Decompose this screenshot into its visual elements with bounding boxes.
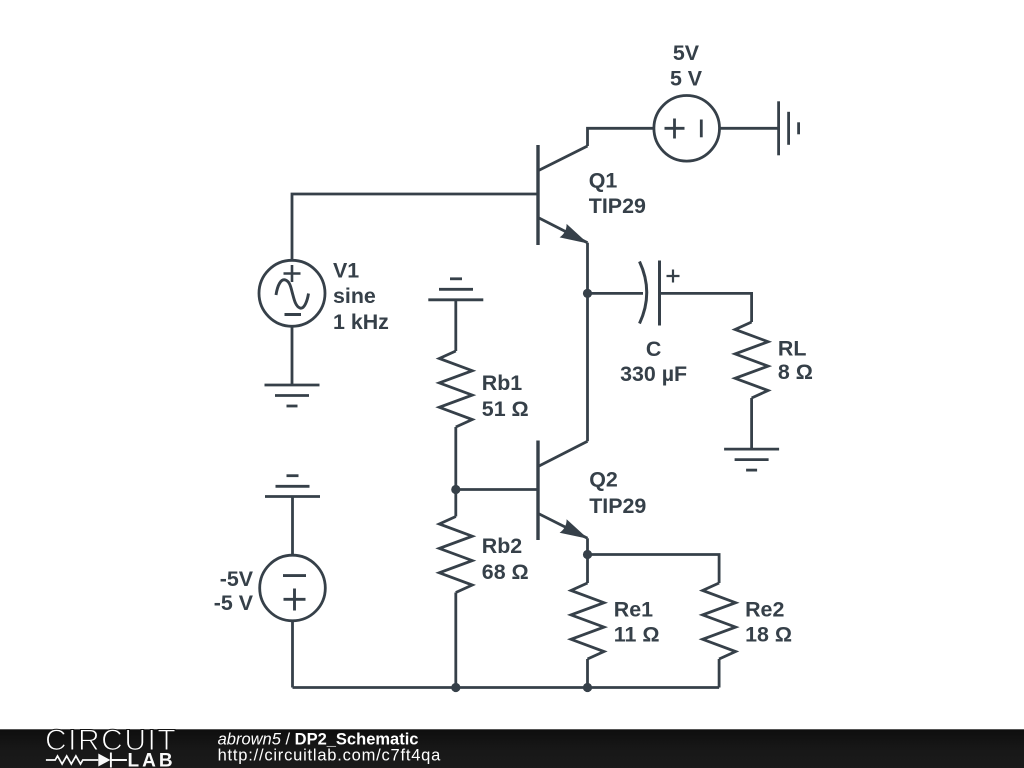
wire capacitor to RL [660,293,752,322]
svg-text:Re2: Re2 [745,598,784,622]
resistor Rb1 [439,351,472,427]
capacitor C [640,261,680,326]
svg-text:C: C [646,337,661,361]
wire RL to ground [750,398,753,449]
wire node C to Re1 [586,555,589,584]
footer bar [0,729,1024,768]
transistor Q1 [538,145,588,245]
svg-text:-5V: -5V [220,567,254,591]
wire Q1 emitter to node A [586,243,589,294]
voltage source -5V [260,555,326,621]
resistor Re2 [703,583,736,659]
svg-text:Q2: Q2 [589,468,618,492]
wire Rb2 to bottom rail [454,593,457,688]
wire node B to Q2 base [456,488,538,491]
ground under RL [724,449,779,470]
label Re2 18 ohm [745,598,792,647]
voltage source 5V [654,96,720,162]
wire top rail from V1 to Q1 base [292,194,538,260]
label Q2 TIP29 [589,468,646,519]
wire bottom rail [293,686,720,689]
svg-text:RL: RL [778,336,807,360]
svg-text:Rb2: Rb2 [482,534,523,558]
label Rb2 68 ohm [482,534,529,584]
wire Q1 collector to 5V source [588,128,654,146]
svg-text:TIP29: TIP29 [589,494,646,518]
svg-text:TIP29: TIP29 [589,194,646,218]
svg-text:1 kHz: 1 kHz [333,310,389,334]
wire inverted ground to -5V source [291,497,294,556]
svg-text:LAB: LAB [128,751,176,768]
label Q1 TIP29 [589,169,646,219]
wire Q2 emitter to node C [586,538,589,554]
label -5V -5 V [214,567,254,615]
wire node A to capacitor [588,292,644,295]
svg-text:51 Ω: 51 Ω [482,397,529,421]
svg-text:http://circuitlab.com/c7ft4qa: http://circuitlab.com/c7ft4qa [218,746,442,764]
footer logo diode [98,753,127,768]
label V1 sine 1 kHz [333,258,389,334]
junction Re1 bottom [583,683,592,692]
voltage source V1 [259,260,325,326]
wire node B to Rb2 [454,490,457,517]
svg-text:-5 V: -5 V [214,591,254,615]
svg-text:18 Ω: 18 Ω [745,623,792,647]
svg-text:Re1: Re1 [614,598,653,622]
ground under V1 [265,385,320,406]
wire Re2 to bottom rail [718,659,721,688]
wire Rb1 to node B [454,427,457,490]
inverted ground above -5V source [265,476,320,497]
label C 330 uF [620,337,687,386]
wire -5V source to bottom rail [291,621,294,688]
wire Re1 to bottom rail [586,659,589,688]
svg-text:Q1: Q1 [589,169,618,193]
node A junction [583,289,592,298]
svg-text:V1: V1 [333,258,359,282]
wire node A to Q2 collector [586,293,589,441]
label Rb1 51 ohm [482,371,529,421]
wire 5V source to ground [720,127,779,130]
inverted ground above Rb1 [428,279,483,300]
resistor Re1 [571,583,604,659]
node C junction [583,550,592,559]
svg-text:Rb1: Rb1 [482,371,523,395]
wire inverted ground to Rb1 [454,300,457,351]
node B junction [451,485,460,494]
resistor RL [735,322,768,398]
resistor Rb2 [439,517,472,593]
label Re1 11 ohm [614,598,660,647]
label RL 8 ohm [778,336,813,384]
svg-text:8 Ω: 8 Ω [778,360,813,384]
ground right of 5V (rotated) [779,101,799,155]
svg-text:5V: 5V [673,41,700,65]
label 5V 5 V [670,41,703,91]
svg-text:330 µF: 330 µF [620,362,687,386]
svg-text:68 Ω: 68 Ω [482,560,529,584]
junction Rb2 bottom [451,683,460,692]
transistor Q2 [538,441,588,541]
wire node C to Re2 top [588,555,720,584]
wire V1 bottom to ground [291,326,294,385]
svg-text:sine: sine [333,284,376,308]
footer logo resistor zigzag [46,756,98,764]
svg-text:11 Ω: 11 Ω [614,623,660,647]
svg-text:5 V: 5 V [670,67,703,91]
